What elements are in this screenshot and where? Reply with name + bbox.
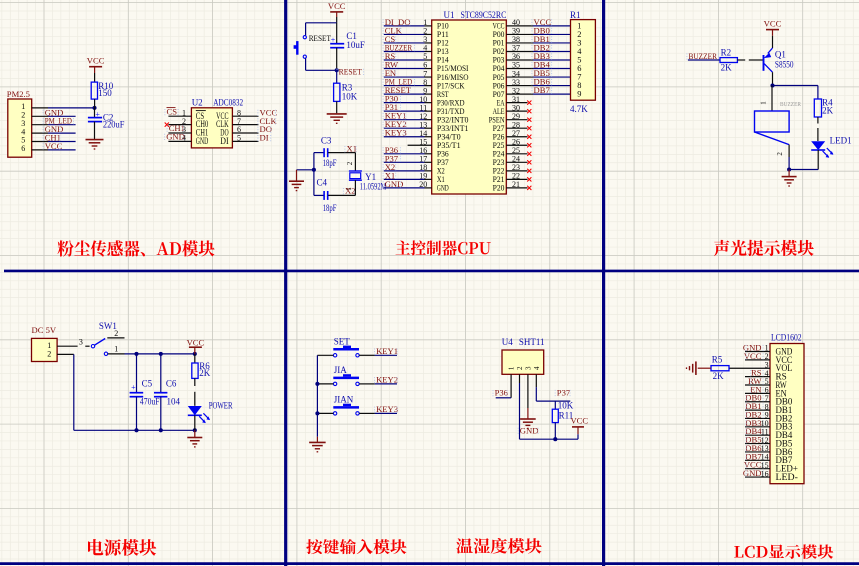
svg-text:VCC: VCC bbox=[570, 416, 588, 426]
wire DC5V pin2 down and bottom rail bbox=[57, 353, 74, 355]
LCD pin 7 wire net DB0 bbox=[745, 401, 770, 403]
U1 pin 16 wire net P36 bbox=[384, 153, 425, 155]
svg-text:LED1: LED1 bbox=[830, 135, 852, 145]
wire R6 to POWER led bbox=[194, 378, 196, 386]
svg-text:JIA: JIA bbox=[334, 365, 347, 375]
wire JIA to net KEY2 bbox=[359, 383, 375, 385]
U2 left pin 1 wire bbox=[168, 115, 191, 117]
LCD pin 10 wire net DB3 bbox=[745, 426, 770, 428]
U1 pin 32 wire net DB7 bbox=[506, 93, 533, 95]
svg-text:LCD1602: LCD1602 bbox=[771, 333, 802, 343]
title LCD显示模块 bbox=[734, 544, 833, 559]
ground (crystal) bbox=[289, 180, 304, 182]
svg-text:CS: CS bbox=[167, 107, 178, 117]
ground (power module) bbox=[194, 430, 196, 437]
svg-text:18pF: 18pF bbox=[323, 158, 337, 168]
svg-text:P37: P37 bbox=[557, 388, 571, 398]
svg-text:18pF: 18pF bbox=[323, 203, 337, 213]
junction ground node bbox=[193, 428, 197, 432]
junction C5 top bbox=[134, 352, 138, 356]
svg-text:2K: 2K bbox=[822, 105, 834, 115]
svg-text:KEY2: KEY2 bbox=[376, 375, 398, 385]
crystal Y1 11.0592M bbox=[349, 170, 362, 172]
resistor R4 2K bbox=[814, 99, 821, 117]
junction RESET node bbox=[335, 68, 339, 72]
LCD pin 1 wire net GND bbox=[745, 351, 770, 353]
bottom rail pin2-R11-VCC bbox=[520, 438, 579, 440]
svg-text:11.0592M: 11.0592M bbox=[360, 182, 387, 192]
svg-text:150: 150 bbox=[98, 88, 112, 98]
svg-text:C6: C6 bbox=[166, 378, 177, 388]
svg-text:R5: R5 bbox=[712, 354, 723, 364]
section divider vertical left bbox=[284, 0, 287, 566]
capacitor C5 470uF bbox=[136, 354, 138, 392]
capacitor C1 10uF bbox=[336, 23, 338, 44]
svg-text:1: 1 bbox=[114, 344, 118, 353]
U1 pin 5 wire net RS bbox=[384, 59, 425, 61]
wire JIAN to net KEY3 bbox=[359, 412, 375, 414]
wire rail to SET bbox=[317, 354, 333, 356]
LCD pin 2 wire net VCC bbox=[745, 359, 770, 361]
svg-text:+: + bbox=[131, 383, 136, 392]
svg-text:VCC: VCC bbox=[764, 18, 782, 28]
svg-text:2K: 2K bbox=[713, 371, 725, 381]
wire buzzer pin2 down bbox=[788, 145, 790, 157]
wire PM2.5 pin3 net PM_LED bbox=[32, 124, 48, 126]
U1 pin 33 wire net DB6 bbox=[506, 85, 533, 87]
LCD pin 8 wire net DB1 bbox=[745, 409, 770, 411]
wire collector to R4 bbox=[773, 85, 818, 87]
junction VCC/R6 bbox=[193, 352, 197, 356]
LCD pin 4 wire net RS bbox=[745, 376, 770, 378]
LCD pin 6 wire net EN bbox=[745, 392, 770, 394]
svg-text:RESET: RESET bbox=[339, 66, 363, 76]
wire PM2.5 pin1 to C2/R10 node bbox=[32, 107, 48, 109]
svg-text:2K: 2K bbox=[199, 368, 211, 378]
svg-text:VCC: VCC bbox=[87, 56, 105, 66]
U1 pin 27 wire (no connect) bbox=[506, 136, 527, 138]
svg-text:1: 1 bbox=[508, 366, 516, 370]
svg-text:2: 2 bbox=[776, 152, 784, 156]
transistor Q1 S8550 bbox=[763, 55, 765, 71]
LCD pin 5 wire net RW bbox=[745, 384, 770, 386]
svg-text:470uF: 470uF bbox=[140, 397, 160, 407]
svg-text:20: 20 bbox=[419, 180, 427, 189]
svg-text:S8550: S8550 bbox=[775, 59, 794, 69]
title 电源模块 bbox=[88, 539, 156, 556]
svg-text:21: 21 bbox=[512, 180, 520, 189]
svg-text:SET: SET bbox=[334, 337, 351, 347]
U1 pin 28 wire (no connect) bbox=[506, 127, 527, 129]
svg-text:R1: R1 bbox=[570, 10, 581, 20]
U1 pin 17 wire net P37 bbox=[384, 161, 425, 163]
section divider vertical right bbox=[602, 0, 605, 566]
no-connect x on pin 23 bbox=[527, 169, 531, 173]
svg-text:LED-: LED- bbox=[776, 473, 798, 483]
svg-text:U2: U2 bbox=[192, 98, 203, 108]
wire P37 to R11 bbox=[554, 401, 556, 409]
wire R11 to bottom rail bbox=[554, 423, 556, 440]
svg-text:SHT11: SHT11 bbox=[519, 337, 545, 347]
no-connect x on pin 30 bbox=[527, 109, 531, 113]
LCD pin 15 wire net VCC bbox=[745, 468, 770, 470]
resistor R10 bbox=[91, 82, 97, 99]
junction KEY2 rail bbox=[315, 382, 319, 386]
svg-text:BUZZER: BUZZER bbox=[780, 101, 802, 108]
svg-text:DI: DI bbox=[260, 133, 269, 143]
U1 pin 10 wire net P30 bbox=[384, 102, 425, 104]
svg-text:10K: 10K bbox=[342, 92, 358, 102]
wire PM2.5 pin2 net GND bbox=[32, 115, 48, 117]
U1 pin 30 wire (no connect) bbox=[506, 110, 527, 112]
SW1 throw 2 wire bbox=[107, 337, 124, 339]
wire SET to net KEY1 bbox=[359, 354, 375, 356]
ground (below R3) bbox=[327, 113, 347, 115]
resistor R6 2K bbox=[194, 354, 196, 363]
U4 pin4 wire net P37 bbox=[535, 374, 537, 387]
wire to R3 bbox=[336, 70, 338, 83]
junction node pin1/R10/C2 bbox=[92, 106, 96, 110]
svg-text:X1: X1 bbox=[347, 144, 358, 154]
U1 pin 15 wire bbox=[408, 144, 432, 146]
svg-text:2K: 2K bbox=[721, 63, 733, 73]
svg-text:KEY3: KEY3 bbox=[376, 404, 398, 414]
no-connect x on pin 25 bbox=[527, 152, 531, 156]
U2 right pin 6 wire bbox=[232, 132, 258, 134]
svg-text:16: 16 bbox=[761, 469, 769, 478]
LCD pin 9 wire net DB2 bbox=[745, 417, 770, 419]
U1 pin 37 wire net DB2 bbox=[506, 50, 533, 52]
svg-text:4: 4 bbox=[533, 366, 541, 370]
ground (SHT11) bbox=[520, 418, 536, 420]
U1 pin 38 wire net DB1 bbox=[506, 42, 533, 44]
no-connect x on pin 29 bbox=[527, 118, 531, 122]
svg-text:DI: DI bbox=[220, 136, 228, 146]
U1 pin 8 wire net PM_LED bbox=[384, 85, 425, 87]
svg-text:DB7: DB7 bbox=[534, 85, 551, 95]
section divider horizontal middle bbox=[4, 270, 859, 273]
svg-text:104: 104 bbox=[167, 397, 181, 407]
U1 pin 1 wire net DI_DO bbox=[384, 25, 425, 27]
section divider horizontal bottom bbox=[0, 562, 859, 565]
U1 pin 34 wire net DB5 bbox=[506, 76, 533, 78]
ground (below C2) bbox=[86, 139, 104, 141]
svg-text:GND: GND bbox=[437, 183, 449, 193]
svg-text:9: 9 bbox=[577, 90, 581, 99]
U1 pin 23 wire (no connect) bbox=[506, 170, 527, 172]
svg-text:3: 3 bbox=[79, 337, 83, 346]
U1 pin 24 wire (no connect) bbox=[506, 161, 527, 163]
junction R11/rail bbox=[553, 437, 557, 441]
LCD pin 11 wire net DB4 bbox=[745, 434, 770, 436]
svg-text:KEY1: KEY1 bbox=[376, 346, 398, 356]
junction crystal left bbox=[312, 168, 316, 172]
keys left rail bbox=[316, 355, 318, 436]
resistor R3 10K bbox=[334, 83, 340, 101]
svg-text:R2: R2 bbox=[721, 48, 732, 58]
wire BUZZER to R2 bbox=[688, 59, 720, 61]
svg-text:+: + bbox=[331, 36, 336, 45]
svg-text:2: 2 bbox=[516, 366, 524, 370]
svg-text:+: + bbox=[95, 110, 100, 119]
svg-text:4.7K: 4.7K bbox=[570, 104, 588, 114]
wire R5 to ground bbox=[698, 367, 711, 369]
junction C5 bottom bbox=[134, 428, 138, 432]
U2 left pin 3 wire bbox=[168, 132, 191, 134]
wire R3 to ground bbox=[336, 101, 338, 113]
svg-text:POWER: POWER bbox=[209, 400, 233, 410]
resistor R2 2K bbox=[720, 58, 737, 63]
U1 pin 20 wire net GND bbox=[384, 187, 425, 189]
U1 pin 6 wire net RW bbox=[384, 68, 425, 70]
capacitor C2 220uF bbox=[94, 108, 96, 117]
U4 pin3 wire to ground bbox=[527, 374, 529, 408]
svg-text:10K: 10K bbox=[558, 400, 574, 410]
wire PM2.5 pin6 net VCC bbox=[32, 149, 48, 151]
wire LED1 to bottom node bbox=[817, 150, 819, 170]
ground (sound module) bbox=[788, 170, 790, 177]
svg-text:GND: GND bbox=[166, 131, 185, 141]
svg-text:DC 5V: DC 5V bbox=[32, 325, 57, 335]
U2 right pin 8 wire bbox=[232, 115, 258, 117]
svg-text:P20: P20 bbox=[493, 183, 505, 193]
U1 pin 3 wire net CS bbox=[384, 42, 425, 44]
svg-text:ADC0832: ADC0832 bbox=[213, 98, 243, 108]
wire rail to JIA bbox=[317, 383, 333, 385]
no-connect x on pin 26 bbox=[527, 143, 531, 147]
svg-text:2: 2 bbox=[346, 161, 354, 165]
svg-text:Q1: Q1 bbox=[775, 49, 786, 59]
no-connect x on U2 pin2 bbox=[165, 123, 169, 127]
LCD pin 16 wire net GND bbox=[745, 476, 770, 478]
title 粉尘传感器、AD模块 bbox=[57, 240, 214, 256]
wire DC5V pin1 to SW1 bbox=[57, 345, 78, 347]
U1 pin 7 wire net EN bbox=[384, 76, 425, 78]
svg-text:2: 2 bbox=[114, 329, 118, 338]
U1 pin 36 wire net DB3 bbox=[506, 59, 533, 61]
svg-text:C4: C4 bbox=[317, 178, 328, 188]
U2 left pin 4 wire bbox=[168, 140, 191, 142]
LCD pin 13 wire net DB6 bbox=[745, 451, 770, 453]
wire crystal left rail bbox=[313, 153, 315, 196]
title 按键输入模块 bbox=[306, 539, 406, 554]
svg-text:220uF: 220uF bbox=[103, 119, 125, 129]
svg-text:PM2.5: PM2.5 bbox=[7, 89, 30, 99]
svg-text:RESET: RESET bbox=[309, 34, 331, 43]
U1 pin 22 wire (no connect) bbox=[506, 178, 527, 180]
U1 pin 11 wire net P31 bbox=[384, 110, 425, 112]
U1 pin 18 wire net X2 bbox=[384, 170, 425, 172]
svg-text:STC89C52RC: STC89C52RC bbox=[461, 10, 507, 20]
svg-text:5: 5 bbox=[237, 134, 241, 143]
svg-text:KEY3: KEY3 bbox=[385, 128, 407, 138]
junction collector node bbox=[770, 83, 774, 87]
no-connect x on pin 31 bbox=[527, 101, 531, 105]
svg-text:GND: GND bbox=[520, 425, 539, 435]
svg-text:Y1: Y1 bbox=[365, 172, 376, 182]
U1 pin 9 wire net RESET bbox=[384, 93, 425, 95]
wire Q1 collector down bbox=[772, 72, 774, 85]
U1 pin 2 wire net CLK bbox=[384, 33, 425, 35]
no-connect x on pin 24 bbox=[527, 160, 531, 164]
svg-text:3: 3 bbox=[525, 366, 533, 370]
svg-text:GND: GND bbox=[196, 136, 209, 146]
junction KEY3 rail bbox=[315, 411, 319, 415]
no-connect x on pin 21 bbox=[527, 186, 531, 190]
no-connect x on pin 28 bbox=[527, 126, 531, 130]
wire reset top rail bbox=[306, 22, 337, 24]
svg-text:JIAN: JIAN bbox=[334, 395, 354, 405]
capacitor C6 104 bbox=[160, 354, 162, 392]
wire rail to JIAN bbox=[317, 412, 333, 414]
U2 internal CS overline bbox=[196, 110, 206, 112]
svg-text:C3: C3 bbox=[321, 135, 332, 145]
LCD pin 14 wire net DB7 bbox=[745, 459, 770, 461]
wire PM2.5 pin5 net CH1 bbox=[32, 141, 48, 143]
svg-text:VCC: VCC bbox=[187, 337, 205, 347]
LCD pin 3 wire (VOL) bbox=[729, 367, 770, 369]
U1 pin 19 wire net X1 bbox=[384, 178, 425, 180]
wire crystal top bbox=[354, 153, 356, 171]
U1 pin 13 wire net KEY2 bbox=[384, 127, 425, 129]
svg-text:10uF: 10uF bbox=[346, 40, 365, 50]
U1 pin 40 wire net VCC bbox=[506, 25, 533, 27]
svg-text:VCC: VCC bbox=[328, 1, 346, 11]
wire crystal bottom to C4 bbox=[354, 180, 356, 195]
U1 pin 4 wire net BUZZER bbox=[384, 50, 425, 52]
junction C6 bottom bbox=[159, 428, 163, 432]
wire POWER led to ground rail bbox=[194, 415, 196, 430]
wire PM2.5 pin4 net GND bbox=[32, 132, 48, 134]
svg-text:2: 2 bbox=[47, 349, 51, 358]
title 声光提示模块 bbox=[714, 240, 814, 256]
U2 left pin 2 wire bbox=[168, 124, 191, 126]
U1 pin 35 wire net DB4 bbox=[506, 68, 533, 70]
svg-text:1: 1 bbox=[760, 101, 768, 105]
svg-text:6: 6 bbox=[21, 144, 25, 153]
push button RESET bbox=[296, 41, 298, 55]
U1 pin 29 wire (no connect) bbox=[506, 119, 527, 121]
wire C2 to ground bbox=[94, 122, 96, 139]
wire to crystal ground bbox=[297, 169, 314, 171]
title 主控制器CPU bbox=[396, 240, 491, 255]
U2 right pin 5 wire bbox=[232, 140, 258, 142]
U1 pin 12 wire net KEY1 bbox=[384, 119, 425, 121]
svg-text:U1: U1 bbox=[444, 10, 455, 20]
U4 pin1 wire net P36 bbox=[510, 374, 512, 398]
U1 pin 25 wire (no connect) bbox=[506, 153, 527, 155]
U1 pin 39 wire net DB0 bbox=[506, 33, 533, 35]
title 温湿度模块 bbox=[456, 538, 541, 554]
svg-text:X2: X2 bbox=[345, 186, 356, 196]
svg-text:C5: C5 bbox=[142, 378, 153, 388]
ground (LCD contrast, rotated) bbox=[695, 361, 697, 375]
ground (keys) bbox=[316, 437, 318, 442]
wire R2 to Q1 base bbox=[737, 59, 745, 61]
wire R10 to node bbox=[94, 99, 96, 108]
U4 pin2 wire to bottom rail bbox=[519, 374, 521, 383]
junction C6 top bbox=[159, 352, 163, 356]
U1 pin 14 wire net KEY3 bbox=[384, 136, 425, 138]
LCD pin 12 wire net DB5 bbox=[745, 443, 770, 445]
svg-text:U4: U4 bbox=[502, 337, 513, 347]
U1 pin 21 wire (no connect) bbox=[506, 187, 527, 189]
junction bottom node bbox=[787, 167, 791, 171]
U2 right pin 7 wire bbox=[232, 124, 258, 126]
wire R4 to LED1 bbox=[817, 117, 819, 124]
no-connect x on pin 22 bbox=[527, 177, 531, 181]
wire collector to buzzer pin1 bbox=[771, 86, 773, 112]
U1 pin 26 wire (no connect) bbox=[506, 144, 527, 146]
wire button to C1 junction bbox=[305, 58, 307, 70]
U1 pin 31 wire (no connect) bbox=[506, 102, 527, 104]
no-connect x on pin 27 bbox=[527, 135, 531, 139]
